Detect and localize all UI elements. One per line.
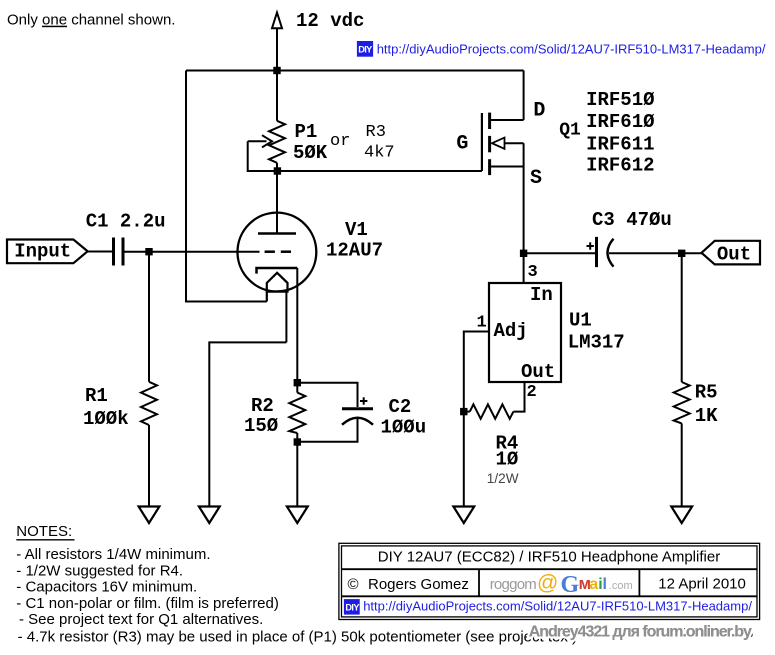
label V1 12AU7 bbox=[326, 219, 383, 261]
DIY badge bottom bbox=[344, 599, 360, 615]
svg-text:1K: 1K bbox=[695, 405, 718, 427]
svg-text:D: D bbox=[533, 99, 545, 122]
wire left heater feed bbox=[186, 71, 267, 302]
svg-text:- All resistors 1/4W minimum.: - All resistors 1/4W minimum. bbox=[16, 546, 210, 563]
resistor R2 bbox=[289, 393, 305, 433]
wire top rail bbox=[186, 70, 524, 72]
wire C2 bottom bbox=[297, 419, 357, 442]
svg-text:DIY: DIY bbox=[358, 45, 372, 55]
svg-text:l: l bbox=[603, 576, 607, 593]
label G bbox=[456, 132, 468, 155]
svg-text:R1: R1 bbox=[85, 385, 108, 407]
svg-text:LM317: LM317 bbox=[568, 331, 625, 353]
out connector bbox=[702, 241, 761, 266]
svg-text:or: or bbox=[330, 132, 350, 151]
date cell bbox=[658, 576, 746, 593]
svg-text:a: a bbox=[589, 576, 598, 593]
resistor R4 bbox=[470, 404, 514, 418]
tube plate bbox=[258, 232, 296, 235]
node R2 bottom bbox=[294, 438, 301, 445]
wire adj to ground bbox=[463, 412, 465, 507]
notes block bbox=[16, 523, 577, 646]
label 12 vdc bbox=[296, 10, 364, 32]
tube cathode bbox=[257, 268, 298, 274]
svg-text:Andrey4321 для forum.onliner.b: Andrey4321 для forum.onliner.by bbox=[529, 624, 752, 641]
ground R4 bbox=[453, 507, 474, 524]
label S bbox=[530, 167, 542, 190]
svg-text:G: G bbox=[561, 572, 580, 598]
label pin 2 bbox=[527, 383, 537, 402]
label C2 100u bbox=[381, 396, 427, 439]
gmail cell bbox=[490, 572, 633, 599]
svg-text:1: 1 bbox=[477, 313, 487, 332]
ground R1 bbox=[139, 507, 160, 524]
svg-text:P1: P1 bbox=[295, 121, 318, 143]
svg-text:C1 2.2u: C1 2.2u bbox=[86, 210, 166, 232]
label R4 10 bbox=[487, 433, 519, 487]
svg-text:C2: C2 bbox=[389, 396, 412, 418]
url bottom bbox=[363, 599, 752, 614]
label R1 100k bbox=[83, 385, 129, 430]
label R3 4k7 bbox=[364, 123, 395, 163]
label pin 3 bbox=[528, 263, 538, 282]
wire in pin bbox=[523, 253, 525, 283]
node P1 bottom junction bbox=[274, 167, 281, 174]
svg-text:Out: Out bbox=[717, 243, 751, 265]
regulator U1 LM317 bbox=[489, 283, 561, 383]
svg-text:@: @ bbox=[537, 572, 558, 595]
label U1 LM317 bbox=[568, 310, 625, 354]
node source junction bbox=[520, 250, 527, 257]
svg-text:1ØØu: 1ØØu bbox=[381, 417, 427, 439]
label P1 50K bbox=[293, 121, 328, 164]
svg-text:Input: Input bbox=[14, 241, 71, 263]
watermark bbox=[529, 624, 752, 641]
wire supply to P1 bbox=[276, 71, 278, 121]
svg-text:- Capacitors 16V minimum.: - Capacitors 16V minimum. bbox=[16, 579, 197, 596]
wire input to C1 bbox=[88, 251, 112, 253]
label IRF types bbox=[586, 89, 654, 177]
svg-text:V1: V1 bbox=[345, 219, 368, 241]
ground R2 bbox=[287, 507, 308, 524]
svg-text:Only one channel shown.: Only one channel shown. bbox=[7, 12, 175, 29]
svg-text:IRF611: IRF611 bbox=[586, 134, 654, 156]
wire P1 to plate bbox=[276, 163, 278, 234]
node adj junction bbox=[460, 408, 467, 415]
wire to R1 bbox=[148, 252, 150, 382]
svg-text:IRF61Ø: IRF61Ø bbox=[586, 111, 654, 133]
node out junction bbox=[678, 250, 685, 257]
label D bbox=[533, 99, 545, 122]
wire source to C3 bbox=[524, 252, 595, 254]
svg-text:- 4.7k resistor (R3) may be us: - 4.7k resistor (R3) may be used in plac… bbox=[18, 629, 577, 646]
capacitor C2 bbox=[342, 397, 373, 424]
svg-text:NOTES:: NOTES: bbox=[16, 523, 72, 540]
svg-text:R5: R5 bbox=[695, 381, 718, 403]
wire cathode to R2 bbox=[296, 268, 298, 393]
node supply junction bbox=[273, 67, 280, 74]
wire P1 wiper to bottom bbox=[248, 141, 482, 171]
transistor Q1 mosfet bbox=[482, 113, 524, 176]
potentiometer P1 bbox=[248, 121, 285, 163]
node input junction bbox=[145, 248, 152, 255]
wire source down bbox=[523, 143, 525, 253]
wire R4 to out pin bbox=[464, 382, 525, 412]
tube heater bbox=[267, 273, 288, 343]
svg-text:C3 47Øu: C3 47Øu bbox=[592, 209, 672, 231]
title block border bbox=[339, 543, 760, 619]
svg-text:- 1/2W suggested for R4.: - 1/2W suggested for R4. bbox=[16, 562, 183, 579]
wire C1 to grid bbox=[125, 251, 260, 253]
svg-text:4k7: 4k7 bbox=[364, 144, 395, 163]
svg-text:- See project text for Q1 alte: - See project text for Q1 alternatives. bbox=[19, 611, 263, 628]
svg-text:http://diyAudioProjects.com/So: http://diyAudioProjects.com/Solid/12AU7-… bbox=[377, 42, 766, 57]
svg-text:U1: U1 bbox=[569, 310, 592, 332]
url top bbox=[377, 42, 766, 57]
svg-text:1ØØk: 1ØØk bbox=[83, 408, 129, 430]
wire drain bbox=[523, 71, 525, 121]
svg-text:Out: Out bbox=[521, 361, 555, 383]
wire adj pin bbox=[464, 332, 489, 412]
svg-text:roggom: roggom bbox=[490, 576, 537, 593]
wire heater to ground bbox=[209, 342, 286, 506]
svg-text:http://diyAudioProjects.com/So: http://diyAudioProjects.com/Solid/12AU7-… bbox=[363, 599, 752, 614]
svg-text:1/2W: 1/2W bbox=[487, 471, 519, 486]
svg-text:DIY: DIY bbox=[345, 602, 359, 612]
svg-text:R2: R2 bbox=[251, 395, 274, 417]
node R2 top bbox=[294, 379, 301, 386]
svg-text:12 vdc: 12 vdc bbox=[296, 10, 364, 32]
svg-text:S: S bbox=[530, 167, 542, 190]
label pin 1 bbox=[477, 313, 487, 332]
tube grid dashes bbox=[265, 250, 291, 253]
copyright cell bbox=[348, 576, 469, 593]
input connector bbox=[7, 240, 88, 264]
label C3 470u bbox=[592, 209, 672, 231]
capacitor C3 bbox=[587, 237, 614, 267]
wire R2 to C2 top bbox=[297, 383, 357, 407]
capacitor C1 bbox=[114, 238, 124, 266]
svg-text:Adj: Adj bbox=[494, 320, 528, 342]
resistor R1 bbox=[141, 382, 157, 425]
label Q1 bbox=[559, 121, 581, 141]
ground R5 bbox=[671, 507, 692, 524]
svg-text:15Ø: 15Ø bbox=[244, 415, 278, 437]
svg-text:DIY 12AU7 (ECC82) / IRF510 Hea: DIY 12AU7 (ECC82) / IRF510 Headphone Amp… bbox=[378, 549, 720, 566]
svg-text:IRF51Ø: IRF51Ø bbox=[586, 89, 654, 111]
svg-text:G: G bbox=[456, 132, 468, 155]
svg-text:12 April 2010: 12 April 2010 bbox=[658, 576, 746, 593]
label R5 1K bbox=[695, 381, 718, 427]
svg-text:R3: R3 bbox=[366, 123, 386, 142]
ground heater bbox=[199, 507, 220, 524]
svg-text:3: 3 bbox=[528, 263, 538, 282]
svg-text:In: In bbox=[530, 284, 553, 306]
svg-text:12AU7: 12AU7 bbox=[326, 239, 383, 261]
svg-text:.com: .com bbox=[609, 580, 633, 592]
title text bbox=[378, 549, 720, 566]
wire R2 to ground bbox=[296, 433, 298, 507]
date stamp under watermark bbox=[624, 625, 753, 641]
svg-text:- C1 non-polar or film. (film: - C1 non-polar or film. (film is preferr… bbox=[16, 595, 279, 612]
svg-text:IRF612: IRF612 bbox=[586, 155, 654, 177]
label R2 150 bbox=[244, 395, 278, 437]
wire R5 to ground bbox=[681, 423, 683, 506]
resistor R5 bbox=[674, 382, 690, 423]
svg-text:Rogers Gomez: Rogers Gomez bbox=[368, 576, 469, 593]
DIY badge top bbox=[357, 41, 373, 57]
svg-text:1Ø: 1Ø bbox=[496, 448, 519, 470]
tube V1 envelope bbox=[238, 213, 317, 292]
svg-text:2: 2 bbox=[527, 383, 537, 402]
svg-text:5ØK: 5ØK bbox=[293, 142, 328, 164]
wire C3 to out bbox=[609, 252, 702, 254]
label C1 2.2u bbox=[86, 210, 166, 232]
label or bbox=[330, 132, 350, 151]
12 vdc supply arrow bbox=[272, 13, 282, 71]
wire out node to R5 bbox=[681, 253, 683, 382]
wire R1 to ground bbox=[148, 425, 150, 507]
note: only one channel shown bbox=[7, 12, 175, 29]
svg-text:Q1: Q1 bbox=[559, 121, 581, 141]
svg-text:©: © bbox=[348, 576, 359, 593]
